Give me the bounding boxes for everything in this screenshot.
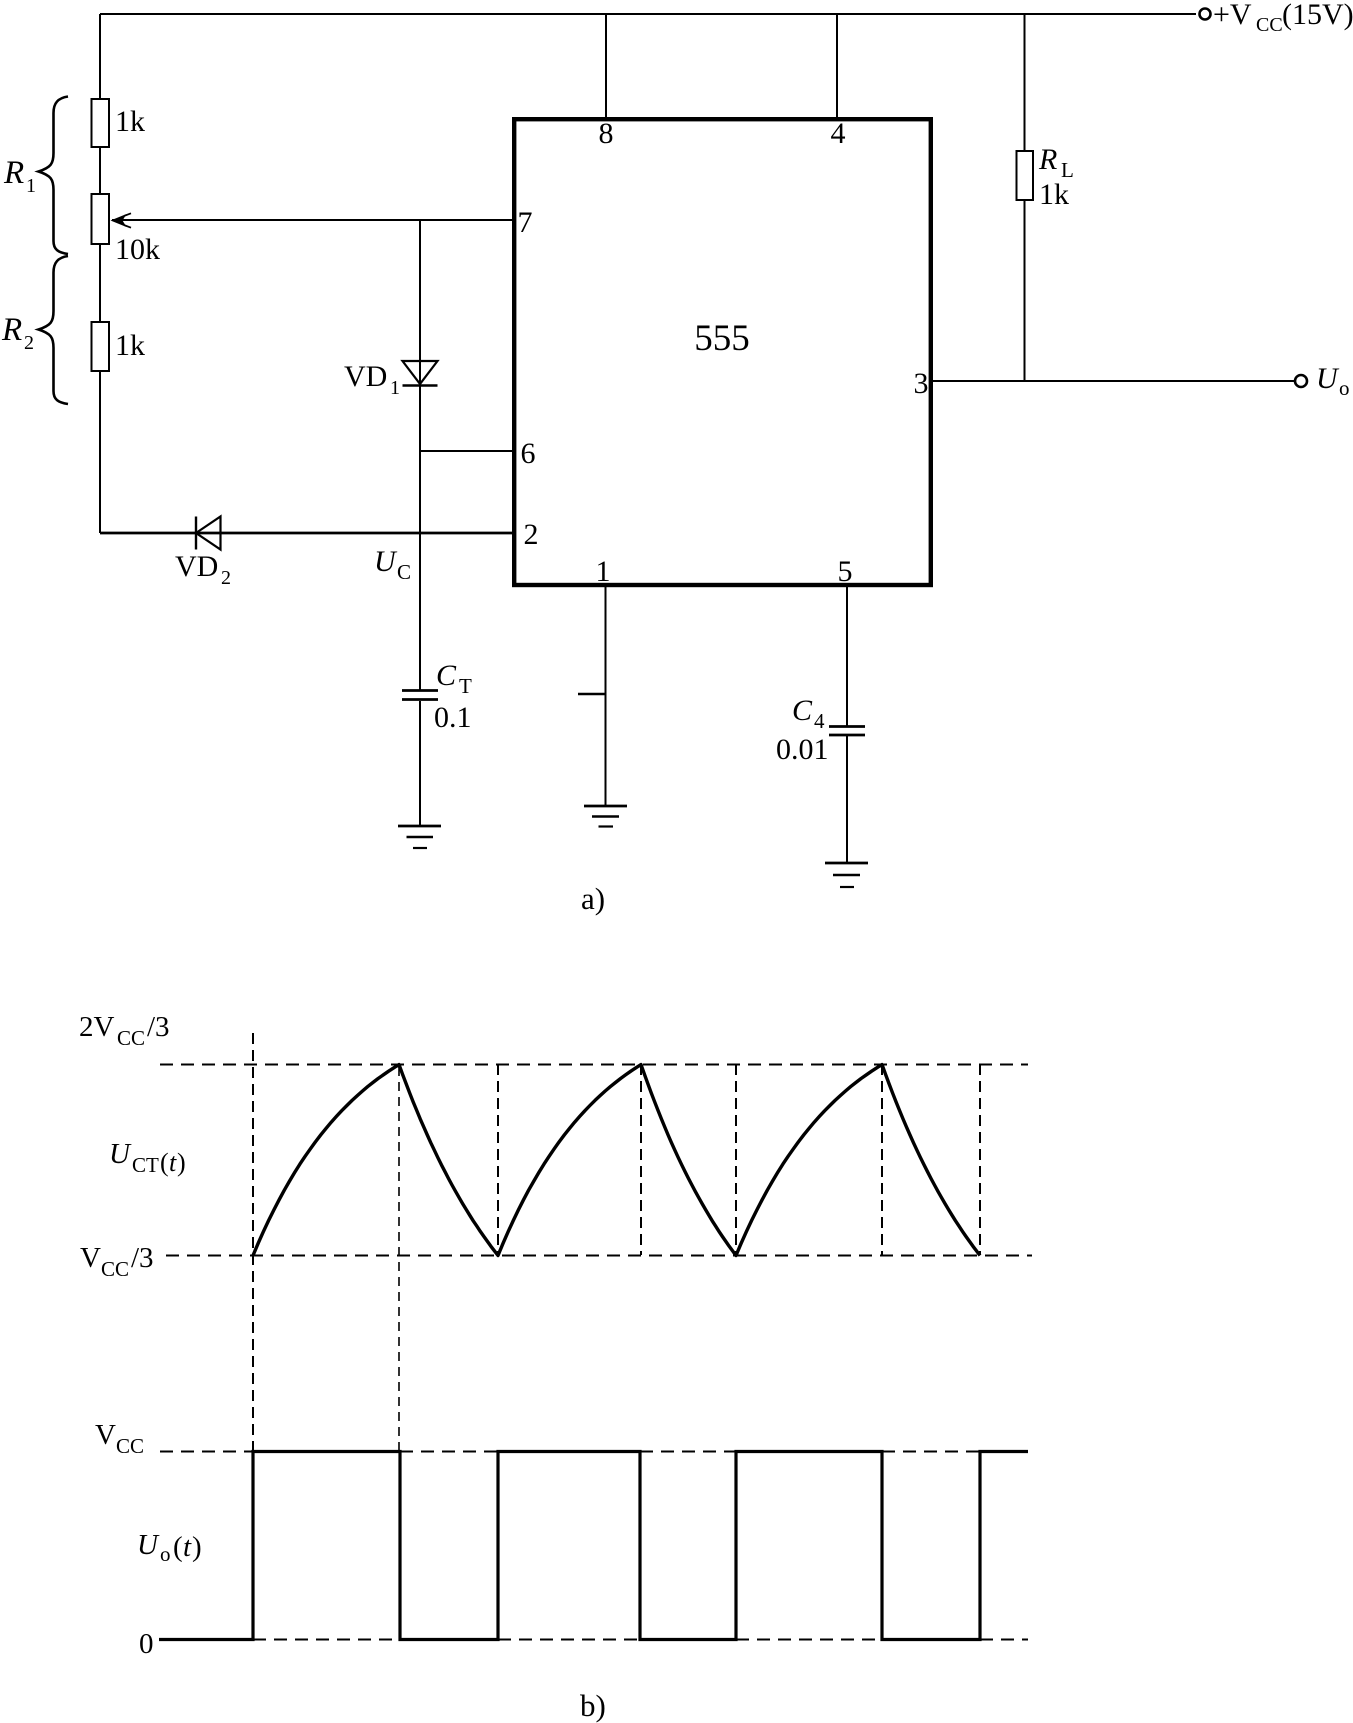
svg-text:R: R [1038, 143, 1057, 176]
dashed 0 level segments [253, 1639, 400, 1641]
svg-text:): ) [177, 1148, 186, 1177]
capacitor C4 [829, 725, 865, 728]
svg-text:/3: /3 [147, 1011, 170, 1043]
svg-text:1k: 1k [1039, 178, 1069, 211]
svg-text:R: R [1, 312, 22, 348]
svg-text:0.1: 0.1 [434, 701, 472, 734]
wire pin4 [836, 14, 838, 117]
resistor R1 1k [92, 99, 110, 147]
dashed vertical t6 [979, 1064, 981, 1255]
svg-text:T: T [459, 674, 472, 698]
svg-text:CC: CC [116, 1434, 144, 1458]
svg-text:CC: CC [117, 1026, 145, 1050]
svg-text:(: ( [173, 1531, 183, 1563]
wire C4 to ground [846, 736, 848, 863]
svg-text:555: 555 [694, 318, 750, 359]
svg-text:2: 2 [221, 567, 231, 589]
dashed vertical t3 [640, 1064, 642, 1255]
svg-text:C: C [792, 694, 813, 727]
svg-text:1: 1 [596, 555, 611, 588]
brace R2 [39, 256, 69, 404]
svg-text:CC: CC [101, 1257, 129, 1281]
svg-text:3: 3 [914, 367, 929, 400]
svg-text:5: 5 [838, 555, 853, 588]
svg-text:U: U [374, 545, 398, 578]
svg-text:U: U [109, 1138, 132, 1170]
svg-text:CC: CC [1256, 14, 1283, 36]
svg-text:/3: /3 [131, 1242, 154, 1274]
svg-text:+V: +V [1213, 0, 1252, 31]
svg-text:VD: VD [175, 550, 218, 583]
svg-text:8: 8 [599, 117, 614, 150]
terminal Uo [1295, 375, 1307, 387]
wire left vertical branch [99, 14, 101, 99]
capacitor voltage curve Uct [253, 1065, 980, 1256]
svg-text:t: t [169, 1148, 177, 1177]
diode VD2 [195, 517, 197, 550]
dashed line 2Vcc/3 level [160, 1064, 1028, 1066]
ground (CT) [398, 825, 441, 828]
svg-text:(: ( [160, 1148, 169, 1177]
svg-text:t: t [183, 1531, 192, 1563]
svg-text:V: V [95, 1419, 116, 1451]
svg-text:CT: CT [132, 1153, 159, 1177]
IC U1 555 timer box [514, 119, 931, 585]
svg-text:VD: VD [344, 360, 387, 393]
svg-text:1k: 1k [115, 329, 145, 362]
svg-text:C: C [436, 659, 457, 692]
svg-text:0: 0 [139, 1628, 154, 1660]
wire [99, 371, 101, 533]
wire [99, 147, 101, 194]
wire pin5 [846, 584, 848, 726]
dashed Vcc level segments [160, 1451, 253, 1453]
svg-text:a): a) [581, 881, 605, 916]
tick on pin1 wire [578, 693, 606, 695]
wire pin7 to potentiometer arrow [112, 219, 514, 221]
svg-text:7: 7 [518, 206, 533, 239]
svg-text:V: V [80, 1242, 101, 1274]
svg-text:4: 4 [814, 709, 825, 733]
dashed vertical t1 [398, 1067, 400, 1451]
waveform section b [160, 1033, 1032, 1451]
svg-text:1: 1 [26, 175, 36, 197]
brace R1 [39, 97, 69, 255]
wire VD1 branch vertical [419, 220, 421, 690]
potentiometer arrow head [111, 214, 127, 227]
ground (C4) [825, 862, 868, 865]
wire top supply rail [100, 13, 1196, 15]
dashed vertical t5 [881, 1064, 883, 1255]
wire [1024, 200, 1026, 381]
wire pin1 [605, 584, 607, 806]
svg-text:6: 6 [521, 437, 536, 470]
resistor R2 1k [92, 322, 110, 371]
ground (pin1) [584, 805, 627, 808]
dashed vertical t0 [252, 1033, 254, 1451]
svg-text:0.01: 0.01 [776, 733, 829, 766]
svg-text:o: o [160, 1542, 171, 1566]
capacitor CT [402, 689, 438, 692]
wire RL branch [1024, 14, 1026, 151]
svg-text:U: U [137, 1529, 160, 1561]
wire CT to ground [419, 701, 421, 826]
svg-text:U: U [1316, 362, 1340, 395]
diode VD1 [403, 361, 438, 384]
svg-text:b): b) [580, 1688, 606, 1723]
wire pin8 [605, 14, 607, 117]
svg-text:1k: 1k [115, 105, 145, 138]
potentiometer 10k [92, 194, 110, 244]
dashed vertical t4 [735, 1064, 737, 1255]
svg-text:R: R [3, 155, 24, 191]
svg-text:2V: 2V [79, 1011, 115, 1043]
svg-text:10k: 10k [115, 233, 160, 266]
dashed line Vcc/3 level [166, 1255, 1032, 1257]
svg-text:C: C [397, 560, 411, 584]
svg-text:4: 4 [831, 117, 846, 150]
svg-text:o: o [1339, 376, 1350, 400]
svg-text:2: 2 [524, 518, 539, 551]
wire pin6 [420, 450, 514, 452]
square wave Uo [159, 1452, 1028, 1640]
svg-text:1: 1 [390, 377, 400, 399]
wire pin3 output [932, 380, 1295, 382]
wire pin2 horizontal [100, 532, 514, 535]
terminal +Vcc [1200, 9, 1211, 20]
dashed vertical t2 [497, 1064, 499, 1255]
svg-text:2: 2 [24, 332, 34, 354]
svg-text:(15V): (15V) [1282, 0, 1353, 31]
svg-text:): ) [192, 1531, 202, 1563]
resistor RL 1k [1017, 151, 1034, 200]
wire [99, 244, 101, 322]
